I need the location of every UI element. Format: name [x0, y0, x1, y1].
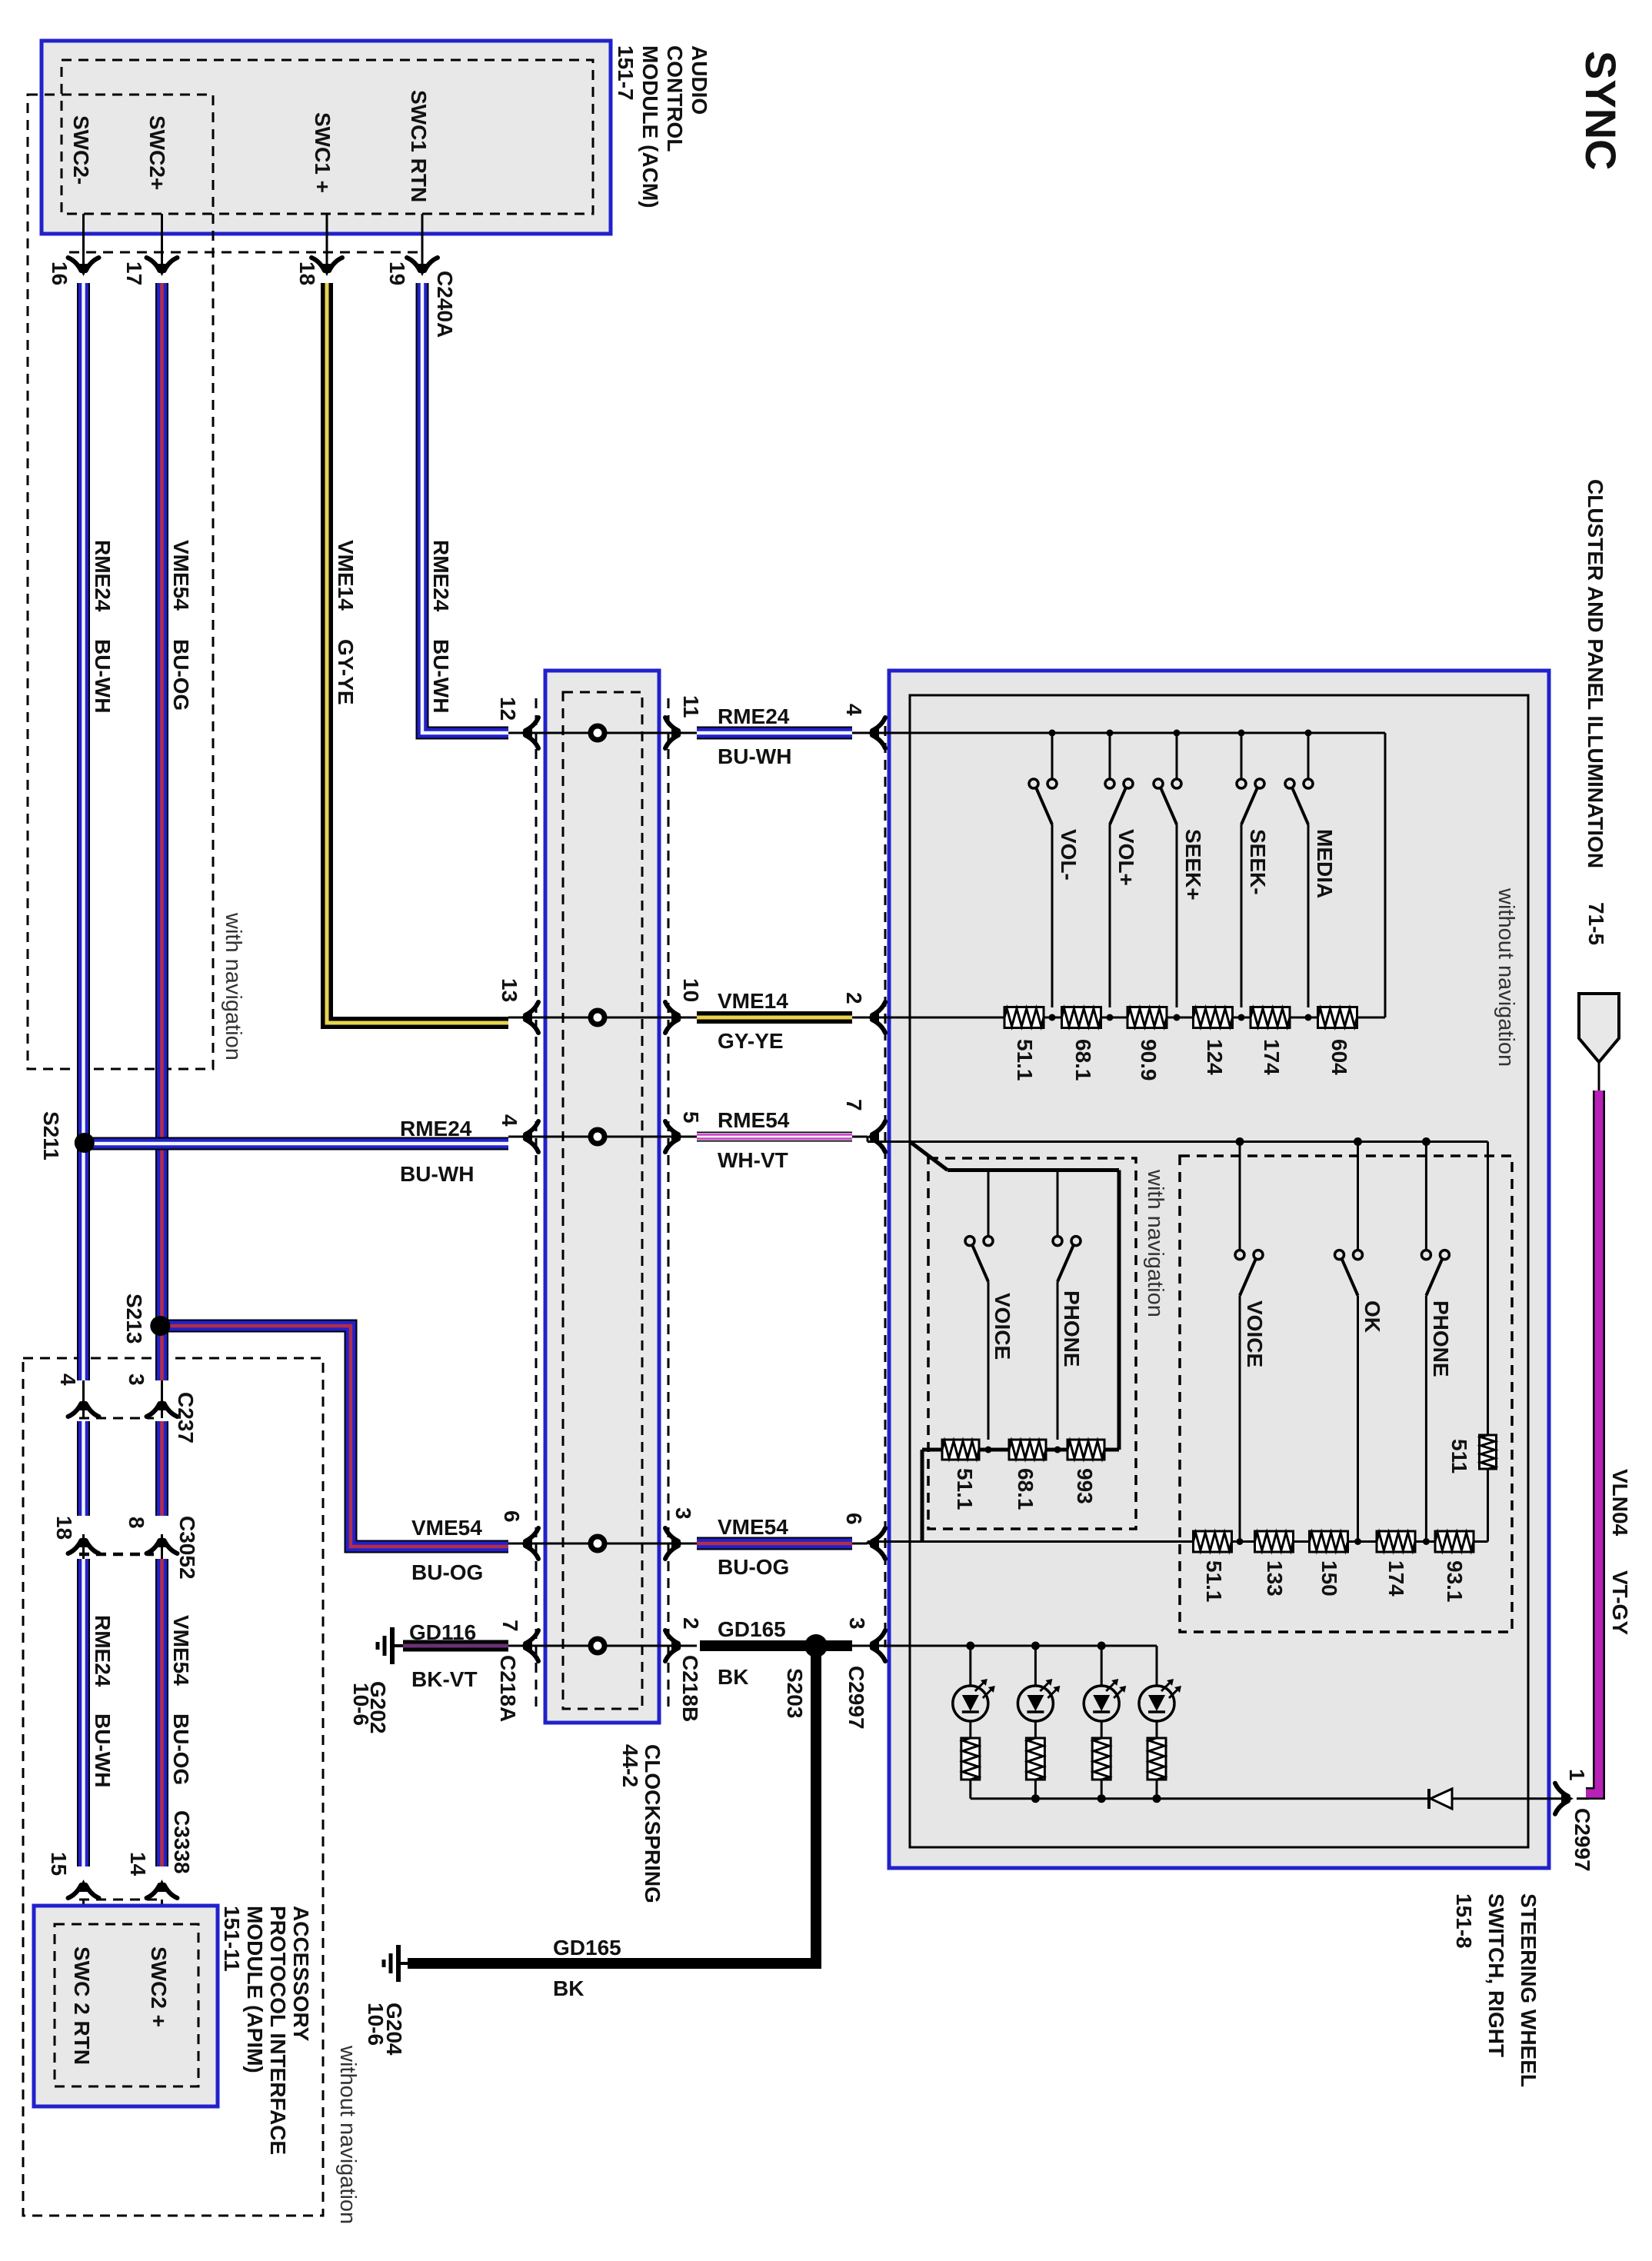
svg-text:6: 6	[500, 1510, 524, 1523]
svg-text:174: 174	[1260, 1039, 1284, 1075]
svg-text:4: 4	[56, 1374, 80, 1386]
svg-text:RME24: RME24	[718, 704, 790, 728]
svg-text:7: 7	[498, 1620, 522, 1632]
svg-text:GY-YE: GY-YE	[334, 639, 358, 705]
svg-text:VT-GY: VT-GY	[1608, 1570, 1632, 1635]
svg-text:SWC2+: SWC2+	[145, 115, 169, 190]
svg-text:SWC1 +: SWC1 +	[311, 112, 335, 193]
svg-text:3: 3	[671, 1507, 695, 1520]
svg-text:12: 12	[496, 697, 520, 721]
svg-text:BU-WH: BU-WH	[429, 639, 453, 713]
svg-text:MODULE (APIM): MODULE (APIM)	[243, 1906, 267, 2073]
svg-text:SWC2 +: SWC2 +	[147, 1946, 171, 2027]
svg-text:BU-WH: BU-WH	[91, 1713, 115, 1787]
svg-text:BU-OG: BU-OG	[169, 1713, 193, 1785]
svg-text:C2997: C2997	[1570, 1808, 1594, 1872]
svg-text:151-8: 151-8	[1452, 1893, 1476, 1949]
svg-text:CONTROL: CONTROL	[663, 45, 687, 152]
svg-text:BU-WH: BU-WH	[400, 1162, 474, 1186]
svg-text:CLUSTER AND PANEL ILLUMINATION: CLUSTER AND PANEL ILLUMINATION	[1584, 479, 1607, 868]
svg-text:151-11: 151-11	[220, 1906, 244, 1972]
svg-text:C218A: C218A	[496, 1655, 520, 1722]
svg-text:18: 18	[52, 1516, 76, 1540]
svg-text:SEEK+: SEEK+	[1181, 829, 1205, 901]
svg-text:10-6: 10-6	[349, 1683, 373, 1726]
svg-text:14: 14	[126, 1852, 150, 1876]
svg-text:PHONE: PHONE	[1429, 1300, 1453, 1377]
svg-text:993: 993	[1073, 1468, 1097, 1504]
svg-text:WH-VT: WH-VT	[718, 1148, 788, 1172]
svg-text:93.1: 93.1	[1443, 1560, 1467, 1603]
svg-text:ACCESSORY: ACCESSORY	[289, 1906, 313, 2042]
svg-text:CLOCKSPRING: CLOCKSPRING	[641, 1744, 664, 1903]
svg-text:BK-VT: BK-VT	[411, 1667, 478, 1691]
svg-text:RME24: RME24	[429, 540, 453, 612]
svg-text:VME14: VME14	[718, 989, 788, 1013]
svg-text:without navigation: without navigation	[1494, 887, 1518, 1067]
svg-text:MODULE (ACM): MODULE (ACM)	[638, 45, 662, 208]
svg-text:with navigation: with navigation	[221, 912, 245, 1061]
svg-text:7: 7	[842, 1099, 866, 1111]
svg-text:GD165: GD165	[553, 1936, 621, 1960]
svg-text:STEERING WHEEL: STEERING WHEEL	[1517, 1893, 1540, 2087]
svg-text:1: 1	[1565, 1769, 1589, 1781]
svg-text:6: 6	[842, 1513, 866, 1525]
svg-text:RME24: RME24	[91, 1615, 115, 1687]
svg-text:BU-OG: BU-OG	[169, 639, 193, 711]
svg-text:VME54: VME54	[411, 1516, 482, 1540]
svg-text:C3338: C3338	[170, 1810, 194, 1874]
svg-text:PHONE: PHONE	[1060, 1290, 1084, 1367]
svg-text:2: 2	[679, 1617, 703, 1630]
svg-text:68.1: 68.1	[1071, 1039, 1095, 1081]
svg-text:17: 17	[122, 261, 146, 285]
svg-text:11: 11	[679, 695, 703, 718]
svg-text:SWC 2 RTN: SWC 2 RTN	[70, 1946, 94, 2065]
svg-text:MEDIA: MEDIA	[1313, 829, 1337, 898]
svg-text:8: 8	[125, 1517, 148, 1529]
svg-text:SEEK-: SEEK-	[1246, 829, 1270, 895]
svg-text:GD116: GD116	[409, 1620, 476, 1644]
svg-text:S213: S213	[122, 1294, 146, 1344]
svg-text:PROTOCOL INTERFACE: PROTOCOL INTERFACE	[266, 1906, 290, 2155]
svg-text:VME54: VME54	[169, 540, 193, 611]
svg-text:C3052: C3052	[175, 1516, 199, 1580]
svg-text:BU-WH: BU-WH	[91, 639, 115, 713]
svg-text:133: 133	[1263, 1560, 1287, 1597]
svg-text:BU-OG: BU-OG	[718, 1555, 789, 1579]
svg-text:VME14: VME14	[334, 540, 358, 611]
svg-text:VOL+: VOL+	[1114, 829, 1138, 886]
svg-text:VOL-: VOL-	[1057, 829, 1081, 881]
svg-text:10: 10	[679, 978, 703, 1002]
svg-text:18: 18	[295, 261, 319, 285]
svg-text:SWC1 RTN: SWC1 RTN	[407, 90, 431, 202]
svg-text:604: 604	[1327, 1039, 1351, 1075]
svg-text:without navigation: without navigation	[335, 2045, 360, 2224]
svg-text:5: 5	[679, 1111, 703, 1124]
svg-text:15: 15	[47, 1852, 71, 1876]
svg-text:174: 174	[1384, 1560, 1408, 1597]
svg-text:OK: OK	[1361, 1300, 1384, 1333]
svg-text:BK: BK	[718, 1665, 748, 1689]
svg-text:511: 511	[1447, 1439, 1471, 1473]
svg-text:GD165: GD165	[718, 1617, 786, 1641]
svg-text:13: 13	[498, 978, 521, 1002]
svg-text:150: 150	[1317, 1560, 1341, 1597]
svg-text:S203: S203	[783, 1668, 807, 1718]
svg-text:90.9: 90.9	[1137, 1039, 1161, 1081]
svg-text:44-2: 44-2	[618, 1744, 642, 1787]
svg-text:4: 4	[498, 1114, 521, 1127]
svg-text:SWITCH, RIGHT: SWITCH, RIGHT	[1484, 1893, 1508, 2057]
svg-text:4: 4	[842, 704, 866, 716]
svg-text:BU-OG: BU-OG	[411, 1560, 483, 1584]
svg-text:68.1: 68.1	[1014, 1468, 1037, 1510]
svg-text:51.1: 51.1	[1202, 1560, 1226, 1603]
svg-text:19: 19	[385, 261, 409, 285]
svg-text:S211: S211	[39, 1111, 63, 1160]
svg-text:BK: BK	[553, 1976, 584, 2000]
svg-text:SWC2-: SWC2-	[69, 115, 93, 185]
svg-text:3: 3	[845, 1617, 869, 1630]
svg-text:151-7: 151-7	[614, 45, 638, 101]
svg-text:51.1: 51.1	[1013, 1039, 1037, 1081]
svg-text:C218B: C218B	[678, 1655, 702, 1722]
svg-text:GY-YE: GY-YE	[718, 1029, 784, 1053]
svg-text:VOICE: VOICE	[1243, 1300, 1267, 1367]
svg-text:124: 124	[1203, 1039, 1227, 1075]
svg-text:RME24: RME24	[400, 1117, 472, 1140]
svg-text:2: 2	[842, 992, 866, 1004]
svg-text:VME54: VME54	[718, 1515, 788, 1539]
svg-text:3: 3	[125, 1374, 148, 1386]
svg-text:10-6: 10-6	[364, 2003, 388, 2046]
svg-text:AUDIO: AUDIO	[688, 45, 711, 115]
svg-text:71-5: 71-5	[1584, 902, 1608, 945]
svg-text:SYNC: SYNC	[1577, 51, 1625, 171]
svg-text:VOICE: VOICE	[991, 1293, 1014, 1360]
svg-text:with navigation: with navigation	[1143, 1169, 1167, 1317]
svg-text:RME54: RME54	[718, 1108, 790, 1132]
svg-text:VME54: VME54	[169, 1615, 193, 1686]
svg-text:51.1: 51.1	[953, 1468, 977, 1510]
svg-text:C240A: C240A	[433, 271, 457, 338]
svg-text:16: 16	[48, 261, 72, 285]
svg-text:RME24: RME24	[91, 540, 115, 612]
svg-text:BU-WH: BU-WH	[718, 744, 791, 768]
svg-text:C2997: C2997	[844, 1666, 868, 1730]
svg-text:VLN04: VLN04	[1608, 1469, 1632, 1537]
svg-text:C237: C237	[174, 1392, 198, 1444]
